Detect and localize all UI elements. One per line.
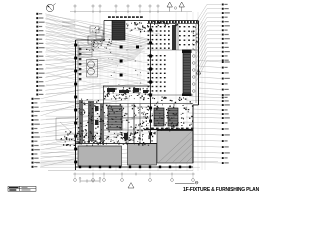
svg-text:1F-FIXTURE & FURNISHING PLAN: 1F-FIXTURE & FURNISHING PLAN bbox=[183, 187, 259, 193]
